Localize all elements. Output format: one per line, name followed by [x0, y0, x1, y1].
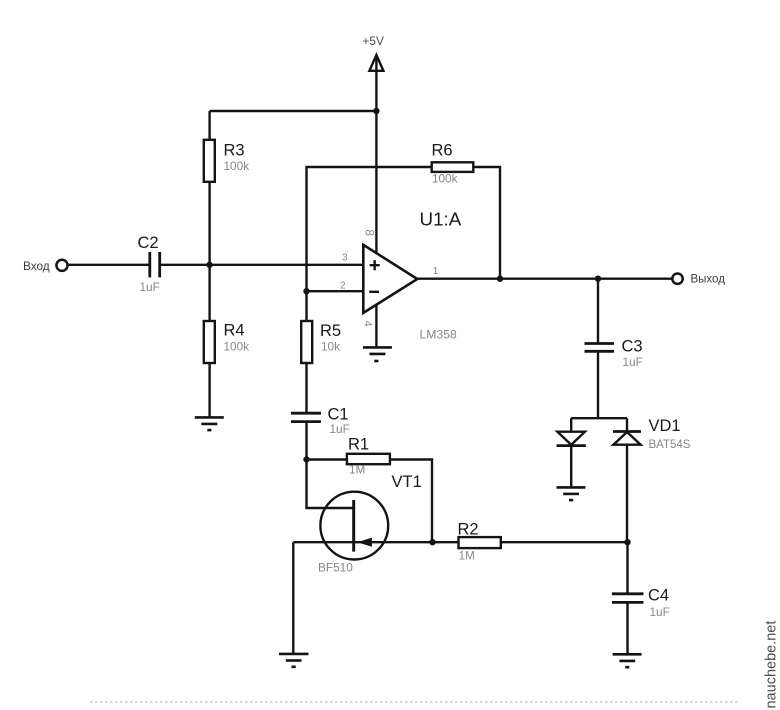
wire R5 bottom to C1: [305, 363, 307, 414]
wire VD1a cathode to ground: [570, 446, 572, 488]
wire R6 right down to output: [473, 167, 500, 279]
terminal Выход: [672, 274, 725, 286]
ground under VD1a: [557, 487, 586, 500]
capacitor C2: [138, 234, 160, 294]
op-amp U1:A: [340, 209, 462, 342]
terminal Вход: [23, 259, 68, 273]
node output / C3: [595, 276, 601, 282]
bottom faint dotted line: [90, 701, 740, 703]
capacitor C3: [585, 338, 643, 370]
wire C1 bottom to node: [305, 423, 307, 460]
svg-text:C3: C3: [622, 338, 643, 356]
transistor VT1: [318, 473, 422, 575]
wire +5V rail down to op-amp: [375, 253, 377, 348]
svg-text:LM358: LM358: [420, 328, 457, 342]
wire R4 top: [208, 265, 210, 322]
input terminal pin: [56, 260, 67, 271]
svg-text:R1: R1: [348, 436, 369, 454]
resistor R5: [301, 321, 341, 363]
wire R4 bottom to ground: [208, 363, 210, 418]
wire diode bus: [571, 417, 627, 419]
wire R2 left: [433, 541, 459, 543]
wire C2 to op-amp pin 3: [161, 264, 364, 266]
svg-text:R3: R3: [224, 142, 245, 160]
resistor R2: [458, 521, 501, 563]
svg-text:100k: 100k: [224, 159, 250, 173]
svg-text:Выход: Выход: [691, 274, 726, 286]
svg-text:C1: C1: [328, 406, 349, 424]
output terminal pin: [672, 274, 682, 284]
node output / R6: [497, 276, 503, 282]
resistor R1: [347, 436, 390, 477]
node input / R3 / R4: [206, 262, 212, 268]
wire R5 top: [305, 291, 307, 321]
node R2 / VD1 / C4: [624, 539, 630, 545]
wire VD1b anode down to R2 node and C4: [626, 445, 629, 594]
svg-text:8: 8: [363, 229, 377, 236]
resistor R6: [432, 142, 474, 186]
svg-text:1M: 1M: [459, 549, 475, 563]
wire C4 bottom to ground: [626, 603, 628, 655]
ground under C4: [613, 654, 642, 667]
svg-text:1: 1: [433, 266, 439, 277]
wire R2 right: [501, 541, 628, 543]
wire R3 top: [208, 111, 210, 140]
ground bottom-left: [279, 654, 309, 667]
svg-text:2: 2: [340, 281, 346, 292]
wire input to C2: [68, 264, 149, 266]
wire C3 top: [597, 279, 599, 344]
power +5V symbol: [363, 34, 384, 254]
node R1 / R2 / VT1 drain: [429, 539, 435, 545]
svg-text:VT1: VT1: [392, 473, 422, 491]
wire gate of VT1: [307, 460, 353, 509]
svg-text:C4: C4: [648, 587, 669, 605]
capacitor C1: [291, 406, 350, 437]
node +5V / top rail junction: [373, 108, 379, 114]
wire top rail to R3: [210, 110, 377, 112]
svg-text:+5V: +5V: [363, 34, 384, 48]
resistor R3: [204, 140, 249, 182]
svg-text:R6: R6: [432, 142, 453, 160]
ground under op-amp pin 4: [363, 347, 392, 361]
svg-text:BAT54S: BAT54S: [649, 439, 691, 451]
svg-text:1uF: 1uF: [330, 422, 350, 436]
svg-text:R5: R5: [320, 322, 341, 340]
diode VD1b (right, cathode up): [613, 417, 691, 451]
svg-text:4: 4: [362, 320, 374, 326]
ground under R4: [195, 417, 224, 430]
svg-text:1uF: 1uF: [650, 605, 670, 619]
wire op-amp pin 2: [307, 290, 364, 292]
wire source to ground: [292, 542, 294, 654]
capacitor C4: [612, 587, 670, 620]
svg-text:BF510: BF510: [318, 561, 353, 575]
svg-text:100k: 100k: [432, 172, 458, 186]
svg-text:10k: 10k: [321, 340, 340, 354]
wire feedback left (pin2 riser to R6): [307, 167, 432, 291]
svg-text:nauchebe.net: nauchebe.net: [764, 621, 780, 709]
wire channel (source-drain): [293, 541, 432, 543]
svg-text:C2: C2: [138, 234, 159, 252]
node feedback / pin2 / R5: [303, 288, 309, 294]
diode VD1a (left, anode up): [557, 418, 586, 445]
wire C3 bottom to diode bus: [597, 352, 599, 418]
svg-text:R2: R2: [458, 521, 479, 539]
node C1 / R1 / gate: [303, 456, 309, 462]
svg-text:1uF: 1uF: [140, 280, 160, 294]
wire R1 left: [307, 458, 348, 460]
svg-text:1M: 1M: [349, 463, 365, 477]
svg-text:100k: 100k: [224, 340, 250, 354]
svg-text:Вход: Вход: [23, 259, 50, 273]
svg-text:3: 3: [342, 253, 348, 264]
wire R1 right down to R2 node: [390, 460, 433, 543]
svg-text:U1:A: U1:A: [420, 209, 462, 230]
resistor R4: [204, 321, 249, 363]
svg-text:VD1: VD1: [649, 417, 681, 435]
svg-text:1uF: 1uF: [623, 355, 643, 369]
svg-text:R4: R4: [224, 322, 245, 340]
wire output: [417, 278, 672, 280]
wire R3 bottom to input node: [208, 182, 210, 266]
